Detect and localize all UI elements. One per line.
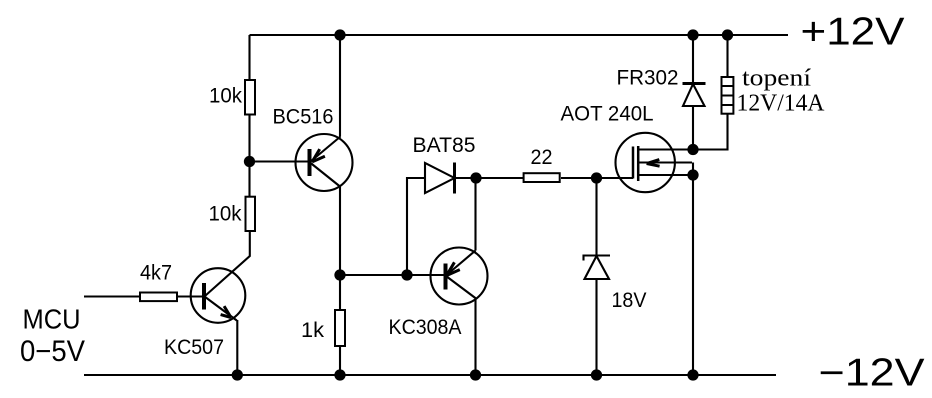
svg-text:FR302: FR302 [617,66,679,90]
wire gate node to MOSFET gate [597,177,634,179]
wire BC516 emitter up to +12V [339,35,341,137]
diode D2 zener 18V [584,256,611,280]
wire KC308A collector to -12V [474,299,476,376]
wire 4k7 to KC507 base [178,295,204,297]
resistor 1k [335,310,345,346]
node MOSFET source junction [688,170,697,179]
node BAT85 branch junction [402,270,411,279]
node heater rail junction [723,30,732,39]
svg-text:1k: 1k [301,318,324,342]
resistor 10k upper [245,80,255,115]
node gate / zener junction [592,173,601,182]
wire zener anode to -12V [595,279,597,375]
node divider junction [245,157,254,166]
wire BAT85 cathode to node [455,177,477,179]
wire 1k to -12V rail [339,347,341,376]
wire KC308A emitter up to gate node [474,178,476,251]
diode D1 BAT85 [425,163,455,194]
resistor 22 [524,173,560,182]
wire between 10k resistors [248,116,250,197]
svg-text:−12V: −12V [819,352,925,395]
transistor U1 AOT240L MOSFET [616,133,694,192]
resistor 10k lower [246,197,256,231]
transistor Q2 KC507 [191,268,246,323]
resistor 4k7 [140,293,177,302]
svg-text:BAT85: BAT85 [413,133,476,157]
svg-text:topení: topení [742,66,811,92]
wire FR302 cathode to +12V [692,35,694,84]
wire node down to 1k [339,275,341,309]
node MOSFET drain / FR302 / heater junction [688,145,697,154]
svg-text:MCU: MCU [23,304,81,335]
transistor Q3 KC308A [431,248,488,305]
wire +12V top rail [250,34,789,36]
wire BC516 base [250,160,310,162]
heater element topeni 12V/14A [721,77,734,114]
wire BAT85 anode branch [407,178,425,275]
svg-text:BC516: BC516 [273,105,334,129]
wire 22 to gate node [561,177,597,179]
wire -12V bottom rail [84,374,776,376]
svg-text:10k: 10k [209,84,242,108]
node BC516 collector / 1k / base line [335,270,344,279]
node BAT85 / KC308A emitter / 22 junction [471,173,480,182]
node MOSFET source rail junction [688,370,697,379]
wire MOSFET source to -12V [692,175,694,375]
svg-text:KC308A: KC308A [389,315,463,339]
node KC308A collector rail junction [471,370,480,379]
svg-text:12V/14A: 12V/14A [737,91,826,117]
node zener rail junction [592,370,601,379]
node FR302 rail junction [688,30,697,39]
svg-text:18V: 18V [612,288,648,312]
svg-text:KC507: KC507 [164,335,224,359]
wire FR302 anode down to drain node [692,106,694,150]
wire node to 22 [476,177,523,179]
wire KC507 emitter to -12V [236,320,238,375]
wire MCU input [84,295,139,297]
svg-text:+12V: +12V [801,11,905,54]
node 1k rail junction [335,370,344,379]
svg-text:22: 22 [531,145,553,169]
diode D3 FR302 [683,84,706,107]
node BC516 emitter rail junction [335,30,344,39]
svg-text:4k7: 4k7 [140,261,172,285]
node KC507 emitter rail junction [233,370,242,379]
svg-text:AOT 240L: AOT 240L [561,102,654,126]
wire node to KC308A base [340,274,445,276]
wire zener branch down [595,178,597,255]
wire heater to +12V [726,35,728,77]
wire heater bottom to drain node [693,115,728,150]
wire BC516 collector down to node [339,187,341,276]
svg-text:0−5V: 0−5V [20,335,85,368]
transistor Q1 BC516 [296,134,353,191]
wire top-left vertical down to 10k upper [248,35,250,79]
svg-text:10k: 10k [209,202,242,226]
wire 10k lower to KC507 collector [206,232,250,296]
